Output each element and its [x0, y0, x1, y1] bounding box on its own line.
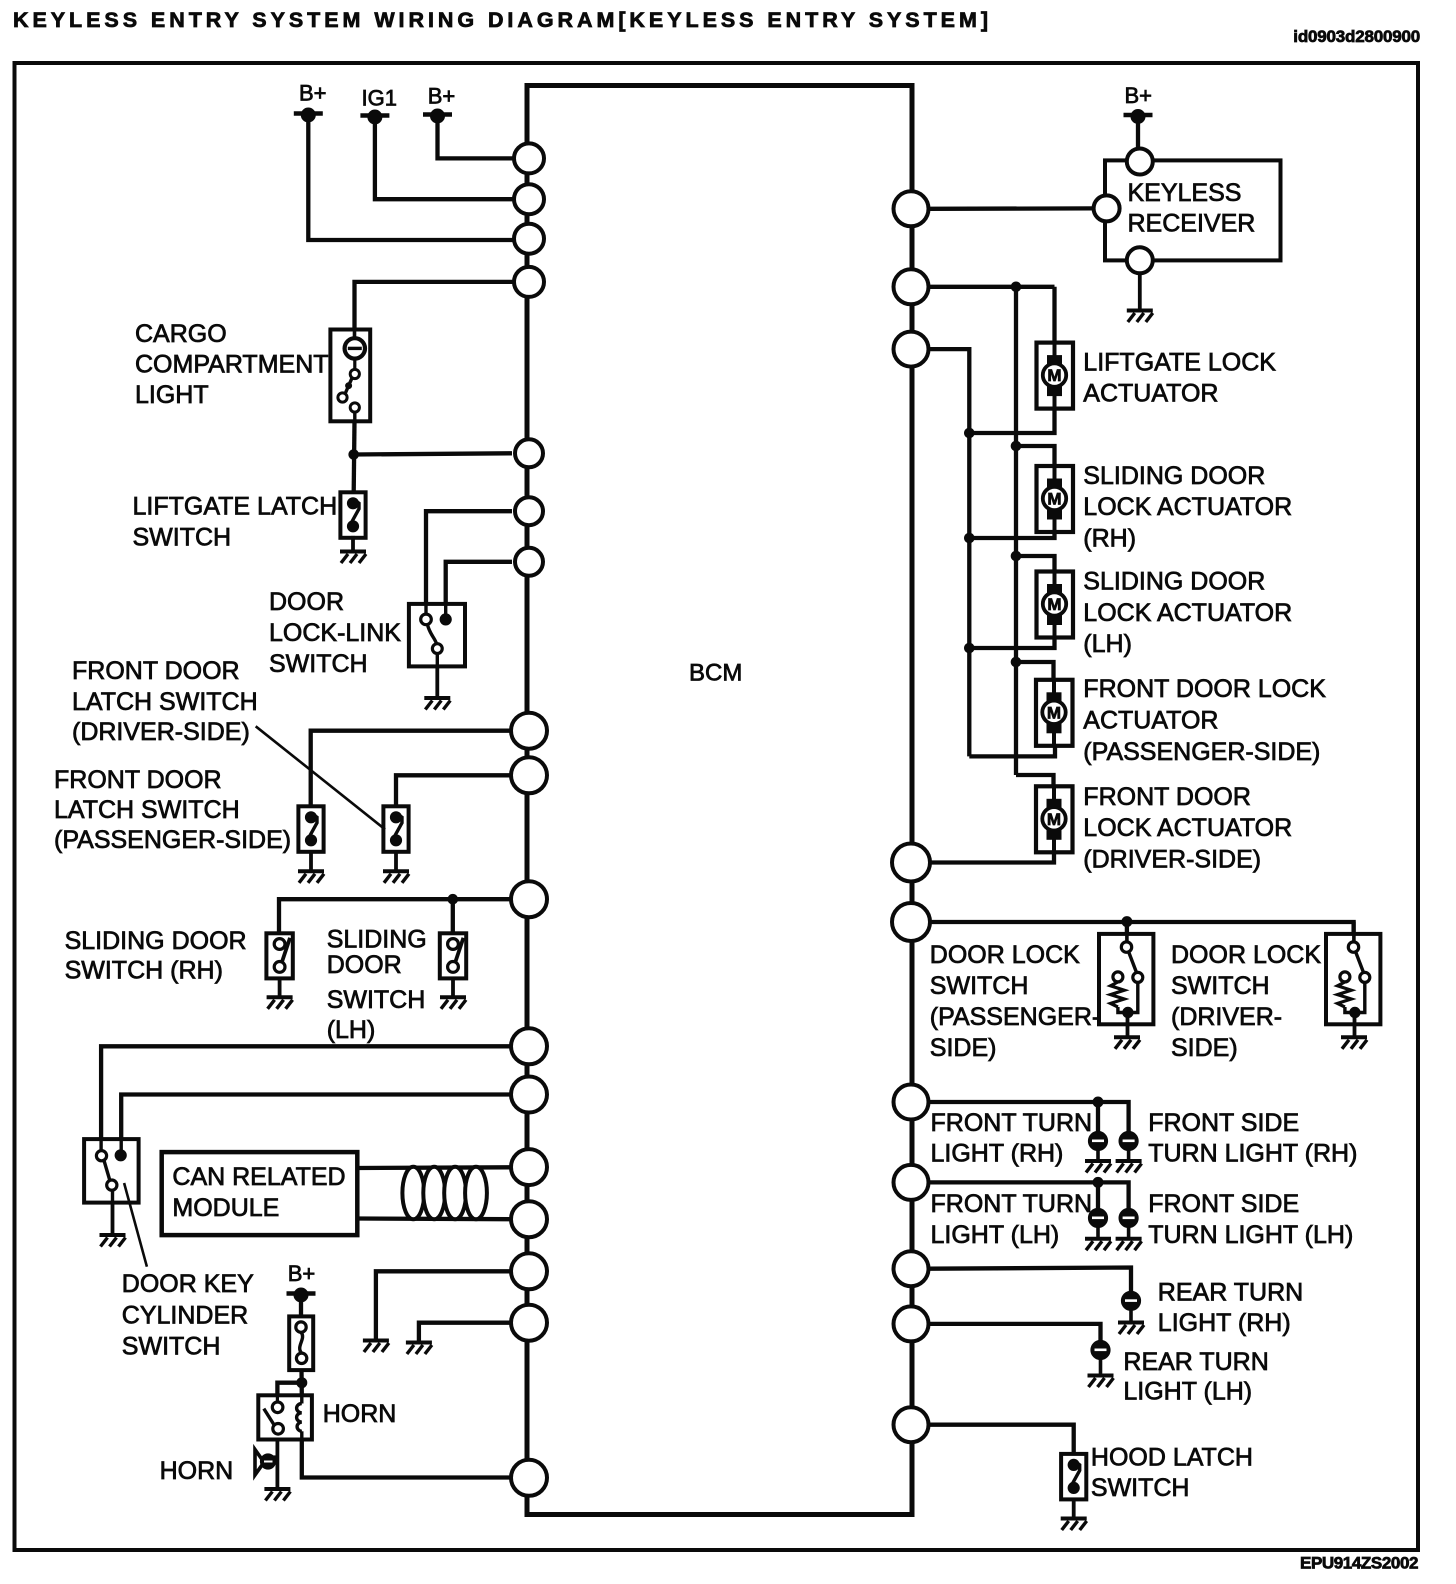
wire driver actuator bottom to BCM pin R4: [928, 852, 1054, 862]
wire branch to sliding door switch LH: [451, 899, 455, 933]
wire B+ to horn switch: [299, 1300, 303, 1316]
ground rear turn LH: [1088, 1376, 1114, 1388]
wire lamp1 LH to ground: [1096, 1227, 1100, 1239]
lamp front side turn light RH: [1119, 1131, 1138, 1150]
svg-text:LIGHT (LH): LIGHT (LH): [1123, 1378, 1252, 1406]
wire bus2 to front door actuator driver: [1016, 775, 1054, 786]
svg-text:LATCH SWITCH: LATCH SWITCH: [72, 688, 258, 716]
lamp rear turn light RH: [1121, 1291, 1140, 1310]
svg-text:SWITCH: SWITCH: [930, 972, 1029, 1000]
ground front side turn RH: [1116, 1161, 1142, 1173]
svg-text:SWITCH: SWITCH: [327, 986, 426, 1014]
ground rear turn RH: [1118, 1323, 1144, 1335]
svg-text:IG1: IG1: [362, 86, 397, 111]
wire bus2 vertical: [1014, 287, 1018, 775]
wire relay contact to horn speaker and ground: [275, 1440, 279, 1490]
wire BCM pin 7 to lock-link: [446, 562, 512, 604]
wire cargo light to liftgate latch switch: [352, 421, 357, 492]
svg-text:(LH): (LH): [327, 1016, 376, 1044]
svg-text:FRONT DOOR: FRONT DOOR: [54, 766, 222, 794]
svg-text:BCM: BCM: [689, 660, 742, 687]
wire BCM pin 8 to front door latch (passenger): [311, 731, 512, 807]
motor sliding door lock actuator LH: [1037, 572, 1074, 638]
wire receiver to ground: [1138, 273, 1142, 310]
door lock switch (driver-side): [1326, 922, 1380, 1036]
wire BCM pin 11 to key cylinder: [101, 1046, 512, 1139]
power B+ mid: [423, 109, 452, 123]
node bus2 at R2: [1011, 282, 1021, 292]
front door latch switch (driver-side): [383, 806, 408, 852]
ground front turn LH: [1085, 1239, 1111, 1251]
motor front door lock actuator passenger: [1036, 680, 1073, 746]
wire lamp2 RH to ground: [1127, 1150, 1131, 1161]
ground pin 16: [406, 1343, 432, 1355]
svg-text:(LH): (LH): [1083, 630, 1132, 658]
svg-text:SIDE): SIDE): [1171, 1034, 1238, 1062]
wire latch passenger to ground: [309, 852, 313, 872]
wire rear RH lamp to ground: [1129, 1310, 1133, 1323]
wire horn switch to relay coil: [299, 1370, 304, 1395]
wire to front turn lamp LH: [1096, 1182, 1100, 1209]
node junction front turn LH: [1093, 1177, 1103, 1187]
front door latch switch (passenger-side): [298, 806, 323, 852]
svg-text:(PASSENGER-SIDE): (PASSENGER-SIDE): [54, 826, 291, 854]
door key cylinder switch: [84, 1139, 139, 1203]
door lock-link switch: [409, 604, 465, 667]
wire B+ (mid) to BCM pin 1: [438, 121, 515, 158]
svg-text:SIDE): SIDE): [930, 1034, 997, 1062]
wire BCM pin R3 to bus1: [928, 349, 969, 756]
ground latch passenger: [298, 871, 324, 883]
wire key cylinder to ground: [111, 1203, 115, 1235]
wire rear LH lamp to ground: [1099, 1360, 1103, 1376]
node junction horn: [297, 1378, 307, 1388]
svg-text:DOOR: DOOR: [269, 588, 344, 616]
horn speaker: [255, 1450, 277, 1476]
node junction front turn RH: [1093, 1097, 1103, 1107]
wire latch driver to ground: [394, 852, 398, 872]
lamp front turn light LH: [1088, 1208, 1107, 1227]
wire BCM pin 4 to cargo light: [355, 282, 515, 330]
svg-text:TURN LIGHT (LH): TURN LIGHT (LH): [1148, 1221, 1353, 1249]
svg-text:HORN: HORN: [323, 1400, 397, 1428]
svg-text:(PASSENGER-SIDE): (PASSENGER-SIDE): [1083, 738, 1320, 766]
BCM left pins 1-17: [511, 143, 547, 1495]
svg-text:ACTUATOR: ACTUATOR: [1083, 380, 1218, 408]
svg-text:KEYLESS: KEYLESS: [1128, 179, 1242, 207]
svg-text:EPU914ZS2002: EPU914ZS2002: [1300, 1554, 1418, 1573]
wire B+ (left) to BCM pin 3: [308, 119, 514, 240]
svg-text:SLIDING DOOR: SLIDING DOOR: [1083, 568, 1265, 596]
svg-text:B+: B+: [1125, 83, 1153, 108]
ground door lock switch driver: [1341, 1037, 1367, 1049]
svg-text:TURN LIGHT (RH): TURN LIGHT (RH): [1148, 1139, 1357, 1167]
wire coil rail top to BCM pin 13: [357, 1165, 514, 1170]
svg-text:DOOR LOCK: DOOR LOCK: [1171, 941, 1321, 969]
receiver pin top: [1127, 149, 1153, 175]
svg-text:B+: B+: [299, 80, 327, 105]
node junction sliding switches: [448, 894, 458, 904]
svg-text:M: M: [1047, 490, 1061, 509]
node bus1 liftgate: [965, 428, 975, 438]
svg-text:SWITCH: SWITCH: [122, 1333, 221, 1361]
svg-text:LATCH SWITCH: LATCH SWITCH: [54, 796, 240, 824]
wire BCM pin 9 to front door latch (driver): [396, 775, 512, 806]
wire node to relay contact: [277, 1383, 301, 1396]
wire lamp2 LH to ground: [1127, 1227, 1131, 1239]
motor liftgate lock actuator: [1037, 343, 1074, 409]
power B+ receiver: [1124, 110, 1153, 124]
wire BCM pin 12 to key cylinder: [121, 1095, 512, 1140]
svg-text:SWITCH (RH): SWITCH (RH): [65, 957, 223, 985]
svg-text:RECEIVER: RECEIVER: [1128, 210, 1256, 238]
svg-text:KEYLESS ENTRY SYSTEM WIRING DI: KEYLESS ENTRY SYSTEM WIRING DIAGRAM[KEYL…: [13, 8, 992, 32]
wire BCM pin R10 to hood latch switch: [928, 1425, 1074, 1454]
svg-text:B+: B+: [428, 84, 456, 109]
svg-text:FRONT DOOR LOCK: FRONT DOOR LOCK: [1083, 675, 1326, 703]
wire BCM pin R5 to door lock switches: [928, 922, 1354, 934]
svg-text:HOOD LATCH: HOOD LATCH: [1091, 1443, 1253, 1471]
motor front door lock actuator driver: [1036, 786, 1073, 852]
svg-text:M: M: [1047, 703, 1061, 722]
liftgate latch switch: [340, 492, 365, 538]
svg-text:LOCK ACTUATOR: LOCK ACTUATOR: [1083, 493, 1292, 521]
door lock switch (passenger-side): [1099, 922, 1153, 1036]
wire bus2 to sliding RH actuator: [1016, 446, 1055, 466]
svg-text:REAR TURN: REAR TURN: [1123, 1348, 1268, 1376]
BCM module box: [527, 86, 912, 1515]
lamp rear turn light LH: [1091, 1340, 1110, 1359]
wire BCM pin R7 to front turn lights LH: [928, 1182, 1129, 1209]
svg-text:LIFTGATE LOCK: LIFTGATE LOCK: [1083, 348, 1276, 376]
ground door lock switch passenger: [1114, 1037, 1140, 1049]
wire BCM pin 6 to lock-link: [426, 511, 512, 604]
svg-text:M: M: [1047, 595, 1061, 614]
svg-text:(PASSENGER-: (PASSENGER-: [930, 1003, 1100, 1031]
horn relay: [258, 1395, 312, 1439]
svg-text:DOOR: DOOR: [327, 951, 402, 979]
motor sliding door lock actuator RH: [1037, 466, 1074, 532]
ground lock-link switch: [424, 698, 450, 710]
svg-text:M: M: [1047, 366, 1061, 385]
wire liftgate latch to ground: [351, 536, 355, 552]
wire IG1 to BCM pin 2: [375, 122, 514, 199]
svg-text:LOCK-LINK: LOCK-LINK: [269, 619, 401, 647]
callout line key cylinder: [124, 1183, 147, 1267]
svg-text:DOOR KEY: DOOR KEY: [122, 1270, 254, 1298]
hood latch switch: [1061, 1454, 1086, 1500]
horn switch: [289, 1316, 313, 1370]
svg-text:FRONT DOOR: FRONT DOOR: [1083, 783, 1251, 811]
wire branch to passenger door lock switch: [1125, 922, 1129, 934]
wire BCM pin R2 to liftgate actuator: [928, 285, 1055, 289]
svg-text:MODULE: MODULE: [172, 1194, 279, 1222]
svg-text:LIGHT (LH): LIGHT (LH): [931, 1221, 1060, 1249]
wire passenger actuator bottom to bus1: [969, 746, 1055, 757]
wire coil rail bottom to BCM pin 14: [357, 1216, 514, 1221]
svg-text:COMPARTMENT: COMPARTMENT: [135, 351, 329, 379]
receiver pin bottom: [1127, 247, 1153, 273]
ground sliding LH: [440, 997, 466, 1009]
node junction cargo/liftgate: [349, 450, 359, 460]
wire lamp1 RH to ground: [1096, 1150, 1100, 1161]
callout line driver-side latch: [256, 726, 385, 829]
svg-text:ACTUATOR: ACTUATOR: [1083, 707, 1218, 735]
sliding door switch (LH): [440, 933, 466, 978]
ground front side turn LH: [1116, 1239, 1142, 1251]
power B+ horn: [287, 1288, 316, 1302]
wire BCM pin R9 to rear turn light LH: [928, 1324, 1101, 1341]
svg-text:SLIDING DOOR: SLIDING DOOR: [65, 927, 247, 955]
BCM right pins R1-R10: [892, 191, 930, 1442]
svg-text:FRONT TURN: FRONT TURN: [931, 1190, 1093, 1218]
svg-text:SWITCH: SWITCH: [1171, 972, 1270, 1000]
wire BCM pin 16 to ground: [419, 1323, 512, 1343]
lamp front turn light RH: [1088, 1131, 1107, 1150]
svg-text:SWITCH: SWITCH: [133, 524, 232, 552]
svg-text:LIGHT (RH): LIGHT (RH): [931, 1139, 1064, 1167]
node junction door lock switches: [1122, 917, 1132, 927]
wire BCM pin R1 to receiver: [928, 206, 1094, 211]
ground receiver: [1127, 311, 1153, 323]
svg-text:HORN: HORN: [160, 1457, 234, 1485]
svg-text:CARGO: CARGO: [135, 320, 227, 348]
svg-text:(DRIVER-: (DRIVER-: [1171, 1003, 1282, 1031]
power B+ left: [294, 108, 323, 122]
svg-text:(DRIVER-SIDE): (DRIVER-SIDE): [72, 718, 250, 746]
ground pin 15: [363, 1341, 389, 1353]
wire BCM pin 10 to sliding door switches: [279, 899, 512, 933]
svg-text:LIFTGATE LATCH: LIFTGATE LATCH: [133, 493, 338, 521]
ground sliding RH: [267, 997, 293, 1009]
node bus1 sliding LH: [965, 643, 975, 653]
keyless receiver box: [1105, 160, 1281, 260]
wire node to BCM pin 5: [354, 453, 512, 454]
svg-text:M: M: [1047, 810, 1061, 829]
wire BCM pin R6 to front turn lights RH: [928, 1102, 1129, 1132]
node bus2 passenger: [1011, 657, 1021, 667]
wire liftgate actuator top: [1052, 287, 1056, 343]
power IG1: [360, 110, 389, 124]
svg-text:LOCK ACTUATOR: LOCK ACTUATOR: [1083, 599, 1292, 627]
wire to front turn lamp RH: [1096, 1102, 1100, 1132]
wire relay coil to BCM pin 17: [302, 1440, 510, 1478]
node bus2 sliding RH: [1011, 441, 1021, 451]
svg-text:REAR TURN: REAR TURN: [1158, 1279, 1303, 1307]
svg-text:(RH): (RH): [1083, 525, 1136, 553]
svg-text:B+: B+: [288, 1261, 316, 1286]
ground horn: [264, 1489, 290, 1501]
svg-text:SLIDING DOOR: SLIDING DOOR: [1083, 462, 1265, 490]
ground liftgate latch: [340, 552, 366, 564]
svg-text:FRONT TURN: FRONT TURN: [931, 1109, 1093, 1137]
svg-text:id0903d2800900: id0903d2800900: [1293, 27, 1420, 46]
wire liftgate actuator bottom to bus1: [969, 409, 1054, 433]
svg-text:FRONT SIDE: FRONT SIDE: [1148, 1109, 1299, 1137]
wire sliding RH bottom to bus1: [969, 532, 1054, 538]
cargo compartment light: [330, 330, 370, 422]
receiver pin left: [1094, 195, 1120, 221]
wire hood latch to ground: [1072, 1499, 1076, 1518]
svg-text:LOCK ACTUATOR: LOCK ACTUATOR: [1083, 814, 1292, 842]
wire sliding RH to ground: [278, 978, 282, 997]
ground latch driver: [383, 871, 409, 883]
wire lock-link to ground: [435, 666, 439, 698]
lamp front side turn light LH: [1119, 1208, 1138, 1227]
svg-text:DOOR LOCK: DOOR LOCK: [930, 941, 1080, 969]
node bus1 sliding RH: [965, 533, 975, 543]
wire sliding LH bottom to bus1: [969, 638, 1054, 649]
svg-text:FRONT DOOR: FRONT DOOR: [72, 657, 240, 685]
wire bus2 to sliding LH actuator: [1016, 556, 1055, 572]
svg-text:CAN RELATED: CAN RELATED: [172, 1163, 345, 1191]
wire sliding LH to ground: [451, 978, 455, 997]
ground front turn RH: [1085, 1161, 1111, 1173]
wire BCM pin R8 to rear turn light RH: [928, 1268, 1131, 1292]
wire bus2 to front door actuator passenger: [1016, 662, 1054, 680]
svg-text:SWITCH: SWITCH: [1091, 1474, 1190, 1502]
inductor coil CAN bus: [402, 1167, 487, 1220]
svg-text:LIGHT (RH): LIGHT (RH): [1158, 1309, 1291, 1337]
svg-text:(DRIVER-SIDE): (DRIVER-SIDE): [1083, 845, 1261, 873]
wire BCM pin 15 to ground: [376, 1271, 512, 1340]
svg-text:LIGHT: LIGHT: [135, 381, 209, 409]
ground key cylinder: [100, 1235, 126, 1247]
CAN related module box: [162, 1152, 358, 1235]
wire B+ to receiver: [1136, 120, 1140, 150]
svg-text:FRONT SIDE: FRONT SIDE: [1148, 1190, 1299, 1218]
node bus2 sliding LH: [1011, 551, 1021, 561]
svg-text:CYLINDER: CYLINDER: [122, 1301, 248, 1329]
svg-text:SLIDING: SLIDING: [327, 925, 427, 953]
ground hood latch: [1061, 1519, 1087, 1531]
sliding door switch (RH): [266, 933, 292, 978]
svg-text:SWITCH: SWITCH: [269, 650, 368, 678]
